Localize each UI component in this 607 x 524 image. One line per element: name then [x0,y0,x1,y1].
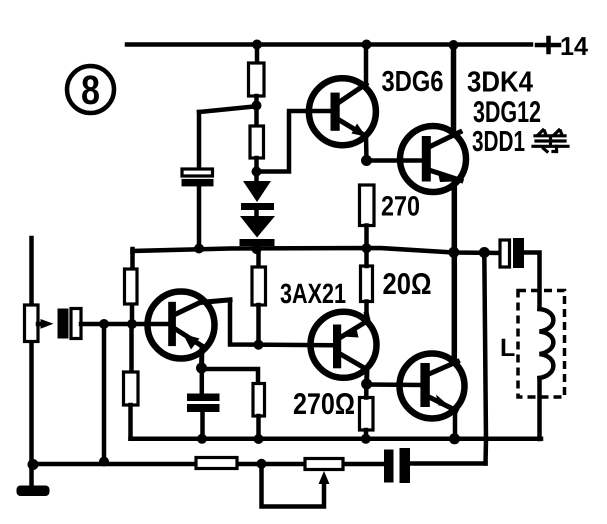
label 270 ohm [294,393,354,414]
label 3DG12 [473,101,540,122]
wire 270 to output node [364,226,369,249]
wire coil to mid rail [537,378,542,439]
transistor Q5 output NPN [400,354,465,419]
resistor 270 ohm [360,398,374,431]
wire C3 to speaker line [524,253,540,310]
wire emitter to resistor [202,369,259,384]
wire bias upper to base node [130,306,135,324]
wire 20 ohm to Q4 emitter [364,302,369,316]
node feedback junction [257,459,267,469]
node Q3 emitter junction [196,363,207,374]
node output-feedback junction [479,247,490,258]
wire Q2 emitter down to Q5 collector [452,181,458,363]
capacitor C4 plate 1 [384,450,394,483]
diode D1 [241,181,274,216]
bottom rail right [410,461,486,466]
wire Q3 collector to Q4 base [230,300,332,345]
resistor R1 [249,63,265,96]
node output-Q2 emitter junction [448,247,459,258]
node input junction 2 [127,319,137,329]
wire output node to 20 ohm [364,248,369,266]
wire rail to R1 [255,45,260,64]
resistor bias chain [252,267,266,305]
node diode bottom junction [252,244,262,254]
node: rail junction 3DK4 collector [449,40,459,50]
resistor R2 [250,126,264,158]
capacitor C4 plate 2 [400,448,411,483]
resistor feedback 1 [196,458,237,469]
transistor Q1 3DG6 [309,78,376,145]
capacitor C1 top plate [182,169,213,176]
wire Q1 collector to rail [364,45,369,86]
node C1 bottom junction [194,244,204,254]
wire Q1 emitter down [364,136,369,161]
node A junction dot [252,101,262,111]
input capacitor plate outlined [71,309,81,339]
wire Q4 collector junction to 270 ohm [364,384,369,398]
input jack arrow [38,319,54,329]
wire bias chain resistor to junction [256,305,261,345]
input capacitor plate solid [58,309,69,339]
inductor L coil [540,309,554,378]
label 3DD1 [472,131,524,152]
label 270 [382,196,419,216]
transistor Q4 3AX21 output [311,312,377,384]
output wire (bootstrap) [133,248,501,253]
capacitor C2 plate 1 [187,394,220,402]
node mid rail 270ohm junction [361,434,371,444]
wire emitter resistor to mid rail [256,416,261,439]
wire Q4 collector to Q5 base [367,382,421,387]
resistor 20 ohm [361,266,373,302]
wire bias lower to mid rail [131,405,151,439]
label 3AX21 [280,283,345,303]
node output-20ohm junction [362,243,372,253]
capacitor C3 output plate outlined [500,240,510,267]
wire R2 to diode D1 [254,158,259,181]
label 3DG6 [382,71,443,92]
ground [17,486,50,497]
node mid rail Q5 emitter junction [449,433,460,444]
wire bias chain vertical [256,249,261,267]
label 20 ohm [383,273,430,294]
wire shield drop [102,324,107,462]
node ground rail junction [28,459,39,470]
node: rail junction R1 [252,40,262,50]
capacitor C2 stem [200,368,205,394]
resistor 270 [360,185,375,226]
resistor Q3 emitter [253,384,265,417]
node mid rail C2 junction [197,434,207,444]
wire 270 ohm to mid rail [364,430,369,439]
node mid rail emitter resistor junction [254,434,264,444]
wire Q5 emitter to mid rail [453,410,458,439]
node collector-bias junction [254,340,264,350]
transistor Q2 3DK4 [400,126,466,192]
node Q4 collector junction [361,379,372,390]
dashed speaker box [518,291,565,398]
bottom rail left [32,462,385,467]
diode D2 [240,216,276,249]
label deng (CJK) [533,130,568,152]
figure number circled 8 [67,66,114,113]
node: rail junction 3DG6 collector [362,40,372,50]
input line (shield) [29,238,34,487]
wire C1 bottom stem [197,186,202,248]
resistor feedback 2 [305,459,343,470]
resistor bias lower [124,372,139,405]
label L [502,339,515,356]
wire Q2 collector to rail [451,45,457,135]
capacitor C2 bottom stem [200,412,205,439]
node Q1 emitter junction [361,155,372,166]
wire bias tap to 3DG6 base [257,111,330,172]
capacitor C3 output plate solid [513,238,524,268]
wire R1 to node A [254,96,259,126]
wire C1 top stem [197,112,202,169]
wire feedback vertical [484,253,486,464]
node input junction 1 [99,319,109,329]
capacitor C1 bottom plate [182,179,214,187]
power rail +14 [127,37,588,55]
wire bias chain top [130,249,135,268]
node shield-ground junction [99,457,109,467]
transistor Q3 3AX21 driver [148,292,231,369]
resistor bias upper [125,269,138,304]
capacitor C2 plate 2 [187,404,220,412]
wire feedback loop with arrow [262,464,330,507]
wire Q1 emitter to Q2 base [367,158,422,163]
wire input to Q3 base [81,322,168,327]
wire base node to bias lower [129,324,134,372]
node bias tap junction [252,167,262,177]
wire node A to capacitor C1 [199,107,254,113]
resistor input shunt [25,305,39,342]
mid rail [131,437,542,442]
label 3DK4 [468,71,533,92]
